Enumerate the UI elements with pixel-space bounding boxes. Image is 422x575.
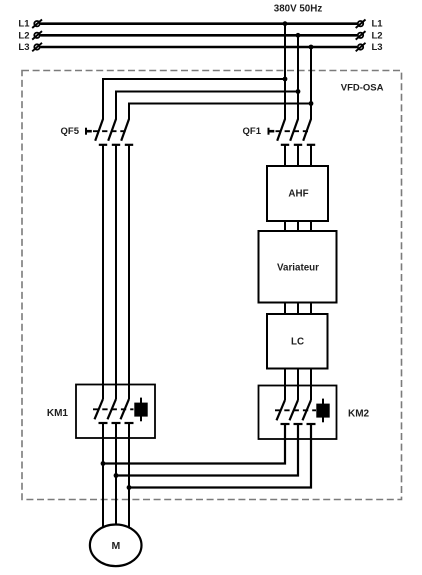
- svg-text:L2: L2: [372, 30, 383, 41]
- svg-text:L2: L2: [18, 30, 29, 41]
- contactor KM2: [259, 386, 337, 440]
- svg-text:Variateur: Variateur: [277, 263, 319, 274]
- wire QF5 pole2 to KM1: [115, 145, 117, 399]
- svg-text:LC: LC: [291, 337, 304, 348]
- wire QF5 pole1 to KM1: [102, 145, 104, 399]
- block AHF U1: [267, 166, 328, 221]
- svg-text:L3: L3: [372, 42, 383, 53]
- wire L3 bus: [41, 46, 358, 49]
- wire KM2 pole2 bypass to node B: [116, 424, 298, 476]
- svg-text:L3: L3: [18, 42, 29, 53]
- block LC filter: [267, 314, 328, 369]
- terminal L2 right: [356, 31, 366, 39]
- terminal L3 right: [356, 43, 366, 52]
- wire drop phase2 to QF1: [297, 35, 299, 119]
- VFD-OSA dashed enclosure: [22, 71, 402, 500]
- breaker QF5: [86, 119, 133, 145]
- wire branch phase2 to QF5: [116, 92, 298, 120]
- contactor KM1: [76, 385, 155, 439]
- svg-text:380V 50Hz: 380V 50Hz: [274, 4, 323, 15]
- junction dot node A: [101, 461, 106, 466]
- wire L2 bus: [41, 34, 358, 37]
- wire QF1 pole1 to AHF: [284, 145, 286, 167]
- terminal L1 right: [356, 20, 366, 29]
- wire KM1 pole3 to motor: [128, 423, 130, 546]
- junction dot L3 drop: [309, 45, 314, 50]
- wire AHF to Variateur phase2: [297, 221, 299, 231]
- junction dot branch phase1: [283, 77, 288, 82]
- wire LC to KM2 phase1: [284, 369, 286, 401]
- junction dot node B: [114, 473, 119, 478]
- svg-text:KM1: KM1: [47, 408, 69, 419]
- wire LC to KM2 phase2: [297, 369, 299, 401]
- wire L1 bus: [41, 22, 358, 25]
- wire KM1 pole2 to motor: [115, 423, 117, 546]
- svg-text:M: M: [112, 540, 121, 552]
- svg-text:VFD-OSA: VFD-OSA: [341, 83, 384, 94]
- junction dot branch phase3: [309, 101, 314, 106]
- wire KM1 pole1 to motor: [102, 423, 104, 546]
- svg-text:L1: L1: [372, 19, 384, 30]
- wire Variateur to LC phase3: [310, 303, 312, 315]
- wire branch phase1 to QF5: [103, 79, 285, 120]
- junction dot L1 drop: [283, 21, 288, 26]
- wire drop phase1 to QF1: [284, 24, 286, 120]
- terminal L2 left: [32, 31, 42, 39]
- motor M: [90, 525, 142, 567]
- wire AHF to Variateur phase1: [284, 221, 286, 231]
- svg-text:QF5: QF5: [61, 126, 80, 137]
- wire QF1 pole3 to AHF: [310, 145, 312, 167]
- svg-text:AHF: AHF: [288, 189, 308, 200]
- wire QF5 pole3 to KM1: [128, 145, 130, 399]
- breaker QF1: [269, 119, 316, 145]
- wire QF1 pole2 to AHF: [297, 145, 299, 167]
- terminal L3 left: [32, 43, 42, 52]
- junction dot node C: [127, 485, 132, 490]
- wire branch phase3 to QF5: [129, 104, 311, 120]
- junction dot L2 drop: [296, 33, 301, 38]
- wire drop phase3 to QF1: [310, 47, 312, 120]
- wire Variateur to LC phase1: [284, 303, 286, 315]
- wire LC to KM2 phase3: [310, 369, 312, 401]
- wire KM2 pole1 bypass to node A: [103, 424, 285, 464]
- block Variateur U2: [259, 231, 337, 303]
- svg-text:L1: L1: [18, 19, 30, 30]
- wire KM2 pole3 bypass to node C: [129, 424, 311, 488]
- svg-text:KM2: KM2: [348, 408, 370, 419]
- svg-text:QF1: QF1: [243, 126, 262, 137]
- terminal L1 left: [32, 20, 42, 29]
- junction dot branch phase2: [296, 89, 301, 94]
- wire AHF to Variateur phase3: [310, 221, 312, 231]
- wire Variateur to LC phase2: [297, 303, 299, 315]
